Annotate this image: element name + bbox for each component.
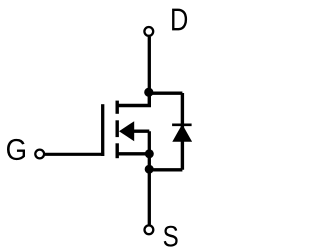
wire body lead xyxy=(133,129,149,132)
wire source lead xyxy=(116,152,149,155)
label S xyxy=(164,226,178,247)
junction dot drain node xyxy=(144,88,153,97)
terminal circle S xyxy=(145,225,154,234)
wire diode branch vertical xyxy=(181,93,184,170)
label D xyxy=(172,9,187,31)
wire drain vertical xyxy=(148,37,151,93)
MOSFET Q1 body arrow xyxy=(119,121,134,141)
terminal circle G xyxy=(35,150,44,159)
terminal circle D xyxy=(144,27,153,36)
wire drain node to diode cathode xyxy=(149,91,183,94)
MOSFET Q1 channel middle segment xyxy=(115,120,118,137)
wire source vertical xyxy=(148,131,151,224)
junction dot diode anode node xyxy=(145,165,154,174)
wire diode anode bottom xyxy=(149,168,182,171)
diode D1 body diode triangle (anode, pointing up) xyxy=(172,124,192,142)
label G xyxy=(7,139,25,160)
wire drain lead into MOSFET xyxy=(116,93,150,106)
wire gate lead xyxy=(45,153,104,156)
diode D1 cathode bar xyxy=(172,124,192,127)
MOSFET Q1 gate bar xyxy=(101,104,104,156)
MOSFET Q1 channel bottom segment xyxy=(115,143,118,158)
junction dot source node xyxy=(145,149,154,158)
MOSFET Q1 channel top segment xyxy=(115,101,118,114)
